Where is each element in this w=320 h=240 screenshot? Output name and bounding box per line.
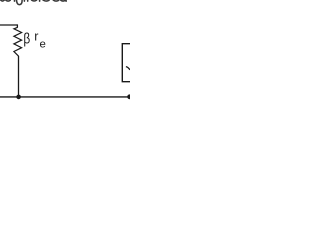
junction dot at right edge of rail xyxy=(127,94,132,99)
wire: short vertical from corner into resistor xyxy=(16,24,18,27)
letter bottom e3 xyxy=(53,0,58,2)
letter bottom o xyxy=(32,0,37,2)
svg-text:r: r xyxy=(34,30,38,44)
resistor R (beta re) zigzag xyxy=(14,27,22,56)
diagonal mark inside box xyxy=(126,67,130,70)
letter bottom e xyxy=(6,0,10,2)
letter bottom b xyxy=(1,0,5,2)
wire: bottom horizontal rail xyxy=(0,96,130,98)
svg-text:β: β xyxy=(23,30,30,46)
letter bottom e2 xyxy=(43,0,49,2)
letter descender g xyxy=(17,0,23,5)
box: partially visible component box on right xyxy=(122,44,130,82)
letter stem r xyxy=(39,0,41,1)
svg-text:e: e xyxy=(40,38,46,50)
letter bottom d xyxy=(61,0,66,1)
letter bottom n xyxy=(24,0,27,1)
cut-off caption text (bottoms of "be ignored" line) xyxy=(1,0,66,5)
junction dot at resistor/rail node xyxy=(16,95,21,100)
wire: vertical from resistor bottom to bottom rail xyxy=(18,56,20,97)
letter stem i xyxy=(14,0,16,1)
wire: top-left horizontal lead xyxy=(0,24,17,26)
